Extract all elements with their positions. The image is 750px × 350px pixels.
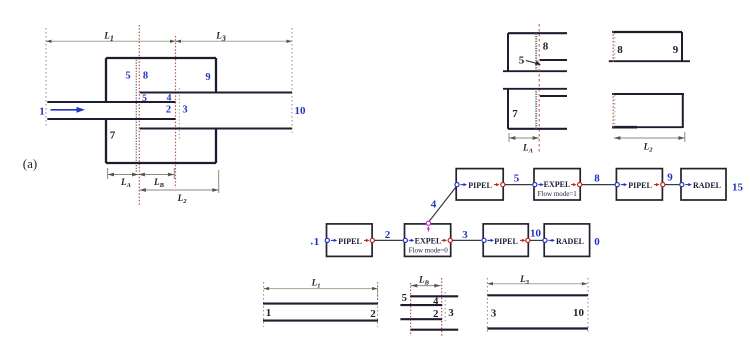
detail D dimension L2	[614, 132, 685, 142]
svg-text:L2: L2	[177, 193, 188, 205]
detail B grey line	[535, 89, 537, 129]
svg-text:2: 2	[385, 229, 391, 241]
link 4 diagonal	[429, 187, 456, 222]
dimension LB	[139, 174, 175, 176]
dimension L3	[176, 40, 293, 42]
svg-text:2: 2	[370, 308, 376, 320]
red reference line through nodes 2-3	[175, 36, 177, 188]
svg-text:9: 9	[673, 44, 679, 56]
svg-text:2: 2	[433, 308, 439, 320]
svg-text:LB: LB	[153, 177, 165, 189]
svg-text:1: 1	[314, 236, 320, 248]
detail C walls (nodes 8-9)	[609, 32, 690, 61]
svg-text:8: 8	[143, 71, 148, 82]
pipe L3 dimension	[487, 283, 587, 285]
dimension L1	[46, 40, 176, 42]
dimension LA	[108, 168, 175, 179]
svg-text:PIPEL: PIPEL	[628, 181, 652, 190]
overlap red line right	[441, 278, 443, 336]
detail D walls (chamber right)	[612, 94, 684, 128]
svg-text:L3: L3	[519, 274, 530, 286]
svg-text:8: 8	[617, 44, 623, 56]
svg-text:EXPEL: EXPEL	[415, 236, 442, 245]
overlap grey line	[444, 292, 446, 321]
svg-text:RADEL: RADEL	[556, 237, 584, 246]
svg-text:3: 3	[448, 307, 454, 319]
pipe L1 dimension	[264, 288, 378, 290]
svg-text:15: 15	[732, 182, 744, 194]
inlet pipe	[47, 102, 175, 119]
dimension L2	[140, 170, 219, 193]
element RADEL L4 (lower)	[543, 224, 590, 257]
svg-text:1: 1	[39, 106, 45, 118]
svg-text:Flow mode=1: Flow mode=1	[538, 190, 578, 198]
overlap outer pipe walls	[410, 296, 458, 329]
svg-text:4: 4	[433, 297, 439, 308]
svg-text:4: 4	[167, 94, 172, 104]
outlet pipe	[140, 93, 292, 129]
svg-text:RADEL: RADEL	[693, 181, 721, 190]
svg-text:3: 3	[462, 229, 468, 241]
pipe L1 walls	[263, 304, 378, 321]
element PIPEL U1 (upper)	[455, 169, 505, 200]
pipe L3 extension right	[587, 278, 589, 334]
detail D green dots	[614, 95, 616, 127]
red reference line through nodes 5-8	[138, 25, 140, 205]
svg-text:0: 0	[594, 236, 600, 248]
overlap dimension LB	[411, 285, 441, 287]
pipe L3 extension left	[486, 278, 488, 334]
detail D red line	[612, 93, 614, 129]
detail C red line	[612, 31, 614, 62]
svg-text:8: 8	[594, 173, 600, 185]
link 8	[582, 184, 615, 186]
svg-text:2: 2	[166, 105, 171, 116]
svg-text:3: 3	[491, 308, 497, 320]
svg-text:L1: L1	[311, 278, 321, 290]
svg-text:10: 10	[530, 228, 542, 240]
svg-text:5: 5	[519, 55, 525, 67]
detail C green dots	[614, 33, 616, 60]
detail B walls (node 7)	[503, 89, 567, 129]
svg-text:LB: LB	[418, 275, 430, 287]
svg-text:8: 8	[543, 41, 549, 53]
flow arrow	[51, 107, 86, 113]
element EXPEL L2 (lower, flow mode 0)	[403, 224, 452, 257]
svg-text:(a): (a)	[23, 156, 37, 171]
svg-text:Flow mode=0: Flow mode=0	[409, 247, 449, 255]
extension line node 10	[291, 28, 293, 133]
element PIPEL L3 (lower right)	[482, 224, 530, 257]
svg-text:EXPEL: EXPEL	[544, 180, 571, 189]
link 5	[505, 184, 532, 186]
svg-text:10: 10	[295, 105, 307, 117]
expansion chamber	[106, 58, 216, 163]
svg-text:7: 7	[512, 108, 518, 120]
svg-text:5: 5	[142, 94, 147, 104]
green reference line node 3	[178, 88, 180, 140]
svg-text:7: 7	[110, 130, 116, 142]
svg-text:5: 5	[402, 293, 407, 304]
link 3	[453, 239, 482, 241]
svg-text:3: 3	[182, 105, 187, 116]
svg-text:PIPEL: PIPEL	[494, 237, 518, 246]
overlap red line left	[410, 283, 412, 336]
svg-text:5: 5	[514, 173, 520, 185]
svg-text:1: 1	[266, 307, 272, 319]
svg-text:9: 9	[205, 72, 210, 83]
detail A grey line	[535, 34, 537, 72]
extension line node 1	[45, 28, 47, 126]
element PIPEL U3 (upper right)	[615, 169, 665, 200]
pipe L3 walls	[487, 295, 588, 328]
element PIPEL L1 (lower left)	[325, 224, 374, 257]
svg-text:4: 4	[431, 199, 437, 211]
detail A red line	[538, 24, 540, 153]
svg-text:LA: LA	[522, 143, 534, 155]
svg-text:PIPEL: PIPEL	[468, 181, 492, 190]
magenta port on EXPEL	[426, 221, 430, 231]
svg-text:5: 5	[125, 71, 130, 82]
pipe L1 extension left	[263, 282, 265, 327]
detail A walls (nodes 5-8)	[503, 33, 567, 71]
svg-text:LA: LA	[120, 177, 132, 189]
pipe L1 extension right red	[377, 282, 379, 300]
element EXPEL U2 (upper, flow mode 1)	[533, 169, 582, 200]
pipe L1 extension right	[377, 282, 379, 327]
grey reference line left of node 8	[135, 57, 137, 172]
link 2	[375, 239, 403, 241]
link 9	[665, 184, 679, 186]
element RADEL U4 (upper)	[680, 169, 726, 200]
detail B dimension LA	[509, 133, 539, 142]
link 10	[530, 239, 543, 241]
svg-text:9: 9	[667, 172, 673, 184]
svg-text:L2: L2	[643, 142, 654, 154]
overlap inner pipe walls	[400, 305, 442, 319]
svg-text:PIPEL: PIPEL	[338, 237, 362, 246]
svg-text:10: 10	[573, 307, 585, 319]
